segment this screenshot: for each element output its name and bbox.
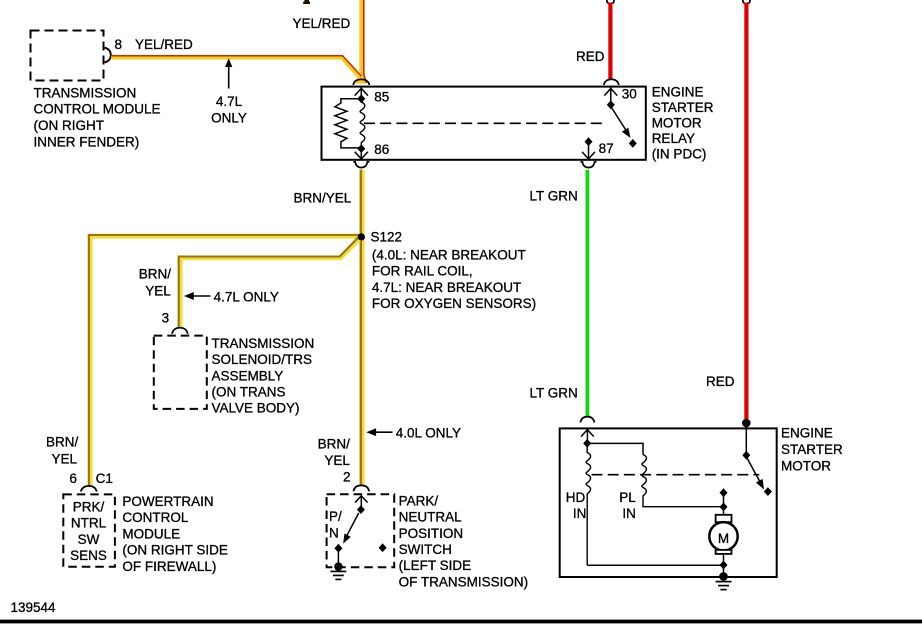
svg-text:STARTER: STARTER — [652, 100, 714, 115]
svg-text:TRANSMISSION: TRANSMISSION — [212, 336, 315, 351]
svg-text:MODULE: MODULE — [122, 526, 180, 541]
svg-text:ASSEMBLY: ASSEMBLY — [212, 368, 284, 383]
svg-text:MOTOR: MOTOR — [781, 459, 831, 474]
svg-text:HD: HD — [566, 490, 586, 505]
svg-text:YEL: YEL — [145, 283, 171, 298]
svg-text:M: M — [718, 531, 729, 546]
wire LT GRN relay pin 87 to starter motor — [586, 170, 590, 418]
PCM caption — [122, 494, 228, 574]
engine starter motor relay box — [322, 87, 646, 160]
svg-text:(ON RIGHT: (ON RIGHT — [34, 118, 105, 133]
svg-text:PRK/: PRK/ — [73, 499, 105, 514]
svg-text:(ON TRANS: (ON TRANS — [212, 385, 286, 400]
svg-text:TRANSMISSION: TRANSMISSION — [34, 85, 137, 100]
connector arc below pin 86 — [353, 162, 369, 168]
ground (PNP switch) — [331, 571, 347, 579]
4.7L ONLY arrow (solenoid branch) — [184, 289, 279, 304]
relay dashed link line — [364, 122, 606, 124]
node S122 — [358, 233, 365, 240]
svg-text:PL: PL — [619, 490, 636, 505]
wire BRN/YEL S122 left branch to PCM pin 6 — [89, 235, 359, 486]
svg-text:POWERTRAIN: POWERTRAIN — [122, 494, 213, 509]
S122 note text — [372, 248, 536, 312]
svg-text:YEL: YEL — [324, 453, 350, 468]
connector arc pin 3 — [172, 328, 188, 334]
svg-text:2: 2 — [343, 469, 351, 484]
relay coil (zigzag) — [335, 99, 361, 148]
svg-text:IN: IN — [573, 506, 587, 521]
svg-text:RED: RED — [706, 374, 735, 389]
motor switch feed — [742, 426, 772, 496]
svg-text:RELAY: RELAY — [652, 131, 695, 146]
wire YEL/RED horizontal from TCM pin 8 to pin 85 — [111, 56, 361, 79]
motor M symbol — [709, 515, 737, 554]
wire RED to relay pin 30 — [608, 3, 612, 80]
transmission control module box (dashed) — [31, 31, 104, 81]
svg-text:85: 85 — [374, 89, 389, 104]
bottom rule — [0, 620, 922, 624]
svg-text:87: 87 — [599, 141, 614, 156]
svg-text:INNER FENDER): INNER FENDER) — [34, 134, 140, 149]
svg-text:NTRL: NTRL — [71, 516, 107, 531]
relay caption — [652, 85, 714, 162]
svg-text:86: 86 — [374, 142, 389, 157]
svg-text:IN: IN — [622, 506, 636, 521]
svg-text:8: 8 — [115, 37, 123, 52]
svg-text:POSITION: POSITION — [399, 526, 464, 541]
pin 85 — [355, 87, 390, 104]
svg-text:SWITCH: SWITCH — [399, 542, 452, 557]
transmission solenoid box (dashed) — [154, 336, 207, 409]
svg-text:LT GRN: LT GRN — [530, 189, 578, 204]
connector arc below pin 87 — [581, 162, 597, 168]
svg-text:SW: SW — [78, 532, 100, 547]
svg-text:3: 3 — [162, 310, 170, 325]
PNP caption — [399, 493, 529, 589]
TCM caption text — [34, 85, 161, 149]
connector arc pin 2 — [353, 485, 369, 491]
connector arc above pin 30 — [604, 79, 619, 85]
motor junction diamonds — [720, 488, 728, 515]
connector arc at motor green input — [580, 417, 594, 423]
svg-text:4.7L: NEAR BREAKOUT: 4.7L: NEAR BREAKOUT — [372, 280, 521, 295]
svg-text:(4.0L: NEAR BREAKOUT: (4.0L: NEAR BREAKOUT — [372, 248, 526, 263]
svg-text:OF TRANSMISSION): OF TRANSMISSION) — [399, 574, 529, 589]
svg-text:CONTROL: CONTROL — [122, 510, 188, 525]
wire BRN/YEL S122 branch to solenoid pin 3 — [179, 237, 361, 328]
svg-text:S122: S122 — [371, 229, 403, 244]
pin 30 — [604, 87, 636, 110]
ground (starter motor) — [716, 582, 732, 590]
node (PNP right contact) — [379, 543, 387, 552]
svg-text:PARK/: PARK/ — [399, 493, 439, 508]
motor caption — [781, 426, 843, 474]
PCM PRK/NTRL SW SENS box (dashed) — [63, 494, 115, 566]
svg-text:VALVE BODY): VALVE BODY) — [212, 401, 300, 416]
motor bottom wiring — [587, 554, 728, 581]
svg-text:OF FIREWALL): OF FIREWALL) — [122, 559, 216, 574]
svg-text:N: N — [329, 526, 339, 541]
svg-text:ENGINE: ENGINE — [652, 85, 704, 100]
connector arc pin 6 — [81, 486, 97, 492]
connector arc pin 8 at TCM — [105, 48, 111, 63]
HD coil — [586, 447, 591, 565]
motor dashed link line — [592, 474, 760, 476]
engine starter motor box — [560, 428, 777, 577]
svg-text:30: 30 — [622, 87, 637, 102]
title fragment (cut-off letter p at top) — [303, 0, 310, 4]
svg-text:ENGINE: ENGINE — [781, 426, 833, 441]
node red wire at box edge — [742, 419, 751, 428]
wire RED to starter motor — [744, 3, 748, 420]
svg-text:SOLENOID/TRS: SOLENOID/TRS — [212, 352, 313, 367]
svg-text:4.0L ONLY: 4.0L ONLY — [396, 425, 461, 440]
svg-text:BRN/YEL: BRN/YEL — [294, 190, 352, 205]
svg-text:YEL/RED: YEL/RED — [135, 37, 193, 52]
4.0L ONLY arrow — [366, 425, 461, 440]
connector ring top of red wire 2 — [743, 0, 750, 4]
svg-text:(IN PDC): (IN PDC) — [652, 146, 707, 161]
svg-text:YEL: YEL — [52, 452, 78, 467]
solenoid caption — [212, 336, 315, 416]
svg-text:BRN/: BRN/ — [139, 267, 172, 282]
svg-text:RED: RED — [576, 49, 605, 64]
svg-text:SENS: SENS — [70, 548, 107, 563]
PNP switch internals — [334, 496, 367, 571]
svg-text:(ON RIGHT SIDE: (ON RIGHT SIDE — [122, 543, 228, 558]
svg-text:FOR OXYGEN SENSORS): FOR OXYGEN SENSORS) — [372, 296, 536, 311]
svg-text:CONTROL MODULE: CONTROL MODULE — [34, 102, 161, 117]
svg-text:(LEFT SIDE: (LEFT SIDE — [399, 558, 472, 573]
motor green input pin — [581, 430, 594, 448]
pin 86 — [355, 142, 390, 159]
wire BRN/YEL vertical pin86 to S122 to PNP switch pin 2 — [361, 170, 364, 487]
svg-text:STARTER: STARTER — [781, 442, 843, 457]
svg-text:4.7L: 4.7L — [216, 94, 243, 109]
svg-text:BRN/: BRN/ — [318, 436, 351, 451]
connector ring top of red wire 1 — [607, 0, 614, 4]
svg-text:YEL/RED: YEL/RED — [293, 16, 351, 31]
svg-text:139544: 139544 — [11, 600, 57, 615]
svg-text:MOTOR: MOTOR — [652, 116, 702, 131]
wire to PL coil — [589, 443, 643, 454]
PL coil — [642, 455, 720, 507]
svg-text:FOR RAIL COIL,: FOR RAIL COIL, — [372, 264, 473, 279]
svg-text:P/: P/ — [329, 509, 342, 524]
svg-text:BRN/: BRN/ — [46, 434, 79, 449]
4.7L ONLY arrow (at TCM wire) — [211, 58, 247, 125]
svg-text:C1: C1 — [96, 471, 113, 486]
park/neutral position switch box (dashed) — [327, 494, 395, 567]
relay switch arm — [612, 108, 637, 148]
wire YEL/RED vertical from top to relay pin 85 — [355, 0, 367, 84]
svg-text:ONLY: ONLY — [211, 111, 247, 126]
svg-text:LT GRN: LT GRN — [530, 386, 578, 401]
svg-text:NEUTRAL: NEUTRAL — [399, 510, 463, 525]
svg-text:4.7L ONLY: 4.7L ONLY — [214, 289, 279, 304]
connector arc above pin 85 — [353, 79, 369, 85]
pin 87 — [582, 137, 614, 159]
svg-text:6: 6 — [69, 471, 77, 486]
relay coil (wavy right side) — [360, 102, 365, 146]
